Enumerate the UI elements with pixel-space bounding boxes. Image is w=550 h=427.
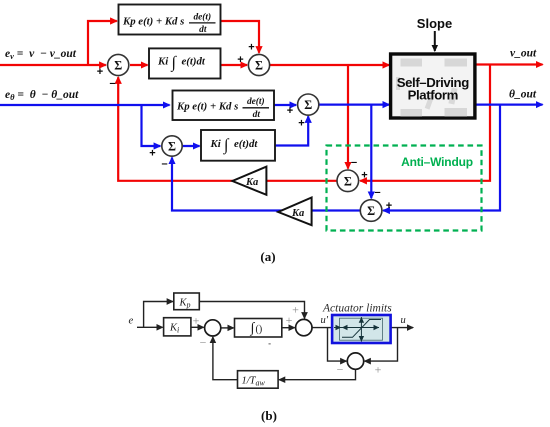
svg-text:de(t): de(t): [193, 11, 211, 22]
svg-text:+: +: [375, 363, 382, 377]
svg-text:Platform: Platform: [408, 88, 458, 103]
svg-text:dt: dt: [253, 110, 261, 120]
svg-text:e(t)dt: e(t)dt: [182, 56, 206, 68]
svg-text:+: +: [292, 303, 299, 317]
svg-text:Anti–Windup: Anti–Windup: [401, 155, 473, 169]
svg-text:+: +: [97, 66, 103, 78]
svg-text:Actuator limits: Actuator limits: [322, 303, 392, 315]
svg-text:Σ: Σ: [344, 174, 352, 188]
svg-text:ev = v − v_out: ev = v − v_out: [5, 48, 77, 61]
svg-text:(a): (a): [260, 249, 275, 264]
svg-text:Σ: Σ: [304, 98, 312, 112]
svg-text:–: –: [374, 187, 380, 199]
svg-text:dt: dt: [199, 25, 207, 35]
svg-text:Ki: Ki: [210, 138, 221, 150]
svg-text:+: +: [149, 148, 155, 160]
svg-text:e(t)dt: e(t)dt: [234, 138, 258, 150]
svg-text:−: −: [337, 363, 344, 377]
svg-text:Kp e(t) + Kd s: Kp e(t) + Kd s: [122, 16, 184, 28]
svg-text:–: –: [351, 157, 357, 169]
svg-text:Slope: Slope: [417, 16, 452, 31]
svg-text:+: +: [237, 54, 243, 66]
svg-text:–: –: [109, 78, 115, 90]
svg-text:(b): (b): [261, 408, 277, 423]
svg-text:+: +: [248, 42, 254, 54]
svg-text:Σ: Σ: [168, 139, 176, 153]
svg-text:Kp e(t) + Kd s: Kp e(t) + Kd s: [176, 100, 238, 112]
svg-text:+: +: [386, 200, 392, 212]
svg-text:+: +: [361, 170, 367, 182]
svg-text:de(t): de(t): [247, 96, 265, 107]
svg-text:+: +: [298, 118, 304, 130]
svg-text:Ka: Ka: [291, 208, 304, 219]
svg-text:eθ = θ − θ_out: eθ = θ − θ_out: [5, 89, 79, 102]
svg-text:Ki: Ki: [157, 56, 168, 68]
svg-text:–: –: [161, 158, 167, 170]
svg-text:Σ: Σ: [367, 204, 375, 218]
svg-text:e: e: [129, 316, 134, 327]
svg-text:u: u: [401, 315, 406, 326]
svg-text:v_out: v_out: [510, 48, 537, 60]
svg-text:−: −: [200, 336, 207, 350]
svg-text:u′: u′: [321, 315, 329, 326]
svg-text:Ka: Ka: [245, 177, 258, 188]
svg-text:θ_out: θ_out: [509, 89, 537, 101]
svg-text:Σ: Σ: [114, 58, 122, 72]
svg-text:Σ: Σ: [255, 59, 263, 73]
svg-text:+: +: [287, 105, 293, 117]
svg-text:+: +: [193, 314, 200, 328]
svg-text:∫(): ∫(): [250, 321, 263, 336]
